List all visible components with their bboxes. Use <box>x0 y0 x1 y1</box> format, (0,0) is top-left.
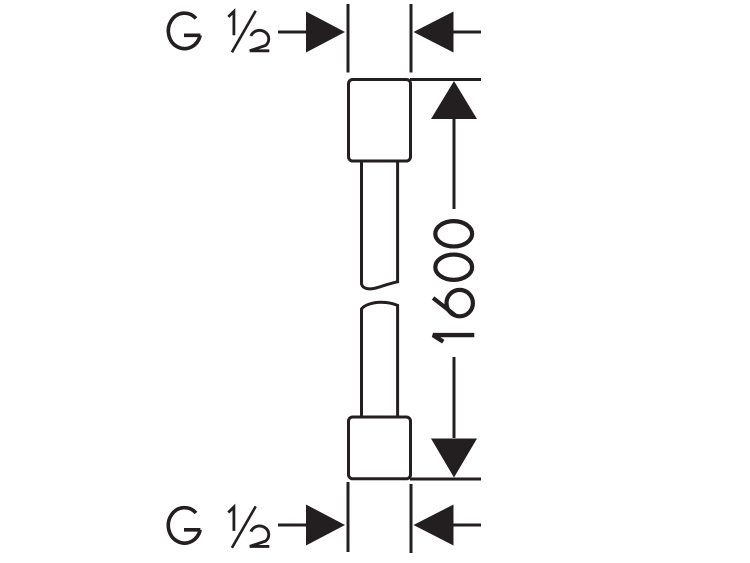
dimension line bottom <box>410 478 481 481</box>
label G bottom <box>168 508 200 543</box>
arrowhead top right <box>414 12 454 53</box>
dimension stem lower <box>453 357 456 438</box>
extension line top left <box>347 4 350 73</box>
label 1/2 top denominator <box>250 30 269 50</box>
dimension arrow down <box>431 439 477 478</box>
arrowhead top left <box>306 12 345 53</box>
digit 6 <box>433 298 455 315</box>
top fitting nut <box>349 80 411 162</box>
extension line bottom left <box>347 482 350 552</box>
hose upper segment <box>362 161 398 289</box>
leader line bottom right <box>453 524 481 527</box>
label 1/2 top numerator <box>228 11 234 35</box>
leader line bottom left <box>278 524 308 527</box>
leader line top left <box>278 31 308 34</box>
fraction slash bottom <box>232 506 256 548</box>
label 1/2 bottom numerator <box>228 507 234 531</box>
leader line top right <box>453 31 481 34</box>
hose lower segment <box>362 302 398 417</box>
arrowhead bottom left <box>306 505 345 546</box>
extension line top right <box>410 4 413 73</box>
label G top <box>168 13 200 49</box>
dimension arrow up <box>431 81 477 119</box>
digit 0 <box>435 221 472 246</box>
label 1/2 bottom denominator <box>250 526 269 546</box>
dimension stem upper <box>453 118 456 209</box>
fraction slash top <box>232 11 256 53</box>
digit 1 <box>433 335 474 342</box>
arrowhead bottom right <box>414 505 454 546</box>
digit 0 <box>435 255 472 280</box>
dimension text 1600 <box>433 221 474 342</box>
bottom fitting nut <box>349 417 411 479</box>
dimension line top <box>410 78 481 81</box>
extension line bottom right <box>410 484 413 553</box>
